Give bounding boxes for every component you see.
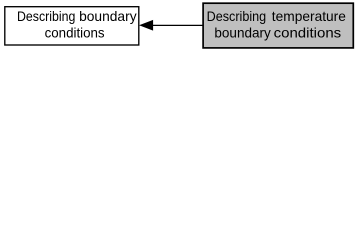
svg-text:conditions: conditions <box>45 25 105 41</box>
node: Describing boundary conditions (box) <box>5 7 139 45</box>
svg-text:temperature: temperature <box>272 8 346 24</box>
svg-text:conditions: conditions <box>274 25 342 41</box>
svg-text:boundary: boundary <box>79 8 137 24</box>
svg-text:Describing: Describing <box>17 8 75 24</box>
arrowhead pointing at left node <box>140 21 153 31</box>
svg-text:boundary: boundary <box>214 25 270 41</box>
svg-text:Describing: Describing <box>207 8 267 24</box>
wire: dependency edge shaft <box>152 24 203 26</box>
node: Describing temperature boundary conditions (current node, grey) <box>203 3 353 48</box>
